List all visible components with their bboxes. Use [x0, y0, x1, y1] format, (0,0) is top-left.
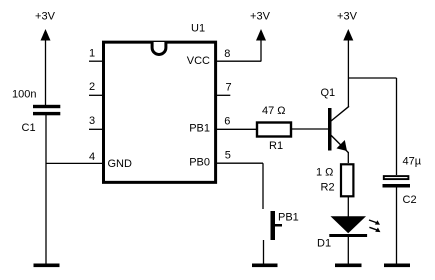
svg-text:U1: U1	[191, 23, 205, 35]
wire C1 bottom to ground	[45, 115, 47, 266]
ground (under C1)	[34, 264, 60, 268]
svg-text:Q1: Q1	[321, 87, 336, 99]
svg-text:C2: C2	[403, 194, 417, 206]
wire R2 to D1	[347, 197, 349, 217]
pin 6	[216, 116, 256, 130]
pin 5	[216, 150, 263, 164]
svg-text:D1: D1	[317, 238, 331, 250]
wire R1 to Q1 base	[292, 128, 328, 130]
wire pin 5 down to PB1	[262, 163, 264, 209]
wire PB1 to ground	[263, 240, 265, 265]
resistor R2	[316, 164, 353, 196]
wire D1 to ground	[347, 237, 349, 265]
ground (under C2)	[384, 264, 410, 268]
svg-text:+3V: +3V	[35, 11, 56, 23]
IC U1 (8-pin DIP body, notch, pin labels)	[104, 23, 216, 183]
svg-text:PB1: PB1	[189, 122, 210, 134]
wire Q1 emitter to R2	[347, 152, 349, 163]
svg-text:R1: R1	[269, 140, 283, 152]
svg-text:+3V: +3V	[337, 11, 358, 23]
wire C2 to ground	[396, 188, 398, 266]
svg-text:5: 5	[225, 150, 231, 162]
capacitor C1	[12, 88, 60, 134]
transistor Q1	[321, 87, 350, 153]
capacitor C2	[383, 156, 422, 207]
svg-text:GND: GND	[108, 158, 133, 170]
svg-text:47µ: 47µ	[403, 156, 422, 168]
pin 4	[89, 151, 95, 163]
ground (under D1)	[335, 264, 362, 268]
resistor R1	[257, 105, 291, 152]
svg-text:PB0: PB0	[189, 156, 210, 168]
pin 3	[89, 115, 103, 129]
svg-text:2: 2	[89, 81, 95, 93]
svg-text:100n: 100n	[12, 88, 36, 100]
svg-text:VCC: VCC	[187, 55, 210, 67]
svg-text:1: 1	[89, 47, 95, 59]
svg-text:C1: C1	[22, 122, 36, 134]
LED D1	[317, 216, 367, 249]
svg-text:7: 7	[226, 82, 232, 94]
LED light arrow 2	[369, 227, 380, 232]
svg-text:6: 6	[224, 116, 230, 128]
svg-text:1 Ω: 1 Ω	[316, 167, 333, 179]
svg-text:R2: R2	[321, 182, 335, 194]
svg-text:8: 8	[224, 48, 230, 60]
pin 8	[216, 48, 261, 61]
pin 1	[89, 47, 103, 61]
svg-text:PB1: PB1	[278, 211, 299, 223]
power +3V (left)	[35, 11, 56, 106]
svg-text:3: 3	[89, 115, 95, 127]
svg-text:+3V: +3V	[250, 11, 271, 23]
push button PB1	[271, 211, 299, 240]
pin 7	[216, 82, 232, 96]
svg-text:47 Ω: 47 Ω	[262, 105, 286, 117]
wire collector node to C2	[348, 78, 396, 175]
power +3V (pin 8)	[250, 11, 271, 62]
wire node to pin 4	[46, 162, 104, 164]
pin 2	[89, 81, 103, 95]
svg-text:4: 4	[89, 151, 95, 163]
power +3V (Q1 collector)	[337, 11, 358, 107]
LED light arrow 1	[369, 220, 380, 225]
ground (under PB1)	[252, 264, 278, 268]
